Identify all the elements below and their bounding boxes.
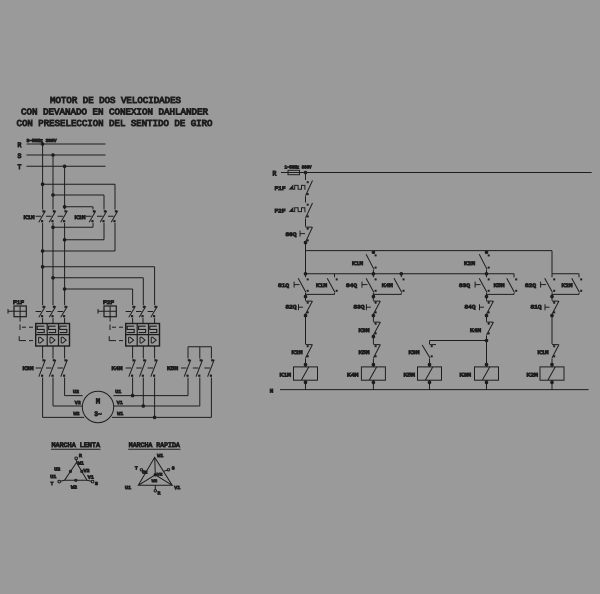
diagram MARCHA LENTA title — [51, 442, 101, 450]
node N neutral rail — [270, 388, 589, 395]
coil K2M — [527, 367, 565, 390]
svg-text:M: M — [96, 399, 100, 407]
coil K3M — [460, 367, 499, 390]
svg-text:S2Q: S2Q — [525, 282, 537, 289]
wire control phase rail top — [304, 171, 592, 174]
node S (phase bus S) — [18, 153, 106, 160]
svg-text:K5M: K5M — [359, 349, 370, 356]
svg-text:K5M: K5M — [404, 371, 416, 378]
auxiliary contact K2M NC on K1M branch — [292, 315, 313, 367]
svg-text:W1: W1 — [78, 462, 84, 467]
wire control bus 2 — [306, 273, 515, 278]
svg-text:K4M: K4M — [112, 365, 123, 372]
svg-text:K5M: K5M — [167, 365, 178, 372]
svg-text:V2: V2 — [75, 400, 81, 406]
auxiliary contact K2M NO feed — [464, 251, 490, 276]
overload F2F heater box — [126, 324, 160, 347]
svg-text:F2F: F2F — [103, 300, 114, 306]
svg-text:K3M: K3M — [23, 365, 34, 372]
svg-text:K1M: K1M — [352, 260, 363, 267]
overload F1F heater box — [36, 324, 70, 347]
svg-text:K5M: K5M — [494, 282, 505, 289]
svg-text:K1M: K1M — [280, 371, 292, 378]
contact S3Q NO — [459, 274, 490, 295]
wire rail to F1F — [305, 173, 307, 181]
svg-text:CON PRESELECCION DEL SENTIDO D: CON PRESELECCION DEL SENTIDO DE GIRO — [17, 118, 213, 129]
coil K5M — [404, 367, 442, 390]
wire phase U down to F1F — [42, 223, 44, 305]
svg-text:R: R — [18, 142, 22, 149]
wire branch U to F2F contact 3 — [41, 266, 154, 306]
diagram MARCHA RAPIDA title — [128, 442, 180, 450]
svg-text:U2: U2 — [142, 472, 148, 476]
svg-text:F2F: F2F — [275, 207, 286, 214]
wire pair rejoin — [485, 294, 514, 300]
contact S4Q NO — [346, 274, 377, 295]
svg-text:S1Q: S1Q — [531, 304, 543, 311]
overload relay F1F trip element — [8, 300, 26, 321]
svg-text:K2M: K2M — [562, 282, 573, 289]
wire motor U1 line — [113, 378, 188, 397]
contact S2Q NO — [525, 274, 555, 295]
svg-text:K1M: K1M — [538, 349, 549, 356]
svg-text:W2: W2 — [152, 480, 158, 484]
svg-text:K2M: K2M — [292, 349, 303, 356]
auxiliary contact K1M NC on K2M branch — [538, 315, 560, 367]
svg-text:K4M: K4M — [470, 327, 481, 334]
overload F2F linkage marks — [109, 325, 123, 341]
wire merge K1M-2/K2M-1 — [52, 223, 93, 229]
wire K3M to motor V2 — [53, 378, 82, 407]
motor terminal labels U1 V1 W1 — [115, 389, 123, 417]
wire bus2 branch5 segment — [552, 274, 579, 277]
diagram MARCHA LENTA labels — [50, 453, 98, 491]
overload contact F2F NC — [275, 203, 313, 218]
wire pair rejoin — [551, 294, 579, 300]
contact K4M NO — [382, 274, 405, 295]
contactor K5M contacts — [167, 359, 214, 377]
auxiliary contact K4M NC on K3M branch — [470, 322, 494, 342]
wire R drop to K1M contact 1 — [42, 144, 44, 210]
svg-text:K4M: K4M — [382, 282, 393, 289]
svg-text:W2: W2 — [71, 486, 77, 491]
svg-text:K2M: K2M — [464, 260, 475, 267]
svg-text:V2: V2 — [84, 469, 90, 474]
auxiliary contact K5M NC on K4M branch — [359, 345, 381, 367]
svg-text:W2: W2 — [74, 411, 80, 417]
svg-text:U1: U1 — [50, 475, 56, 480]
svg-text:R: R — [158, 491, 161, 497]
contact K5M NO — [494, 274, 518, 295]
title text — [17, 95, 213, 129]
button S2Q NC interlock — [286, 301, 313, 322]
svg-text:S3Q: S3Q — [354, 304, 366, 311]
wire branch5 from bus1 — [551, 251, 553, 274]
svg-text:W1: W1 — [157, 454, 163, 459]
wire phase W down to F1F — [64, 223, 66, 305]
svg-text:U1: U1 — [115, 389, 121, 395]
contact S1Q NO — [278, 274, 309, 295]
svg-text:V1: V1 — [88, 475, 94, 480]
svg-text:W1: W1 — [117, 411, 123, 417]
wire branch W to F2F contact 1 — [63, 288, 132, 305]
svg-text:S2Q: S2Q — [286, 304, 298, 311]
wire T drop to K1M contact 3 — [64, 166, 66, 209]
wire crossover T to K2M contact 1 — [63, 206, 93, 210]
overload F1F switch contacts — [36, 306, 68, 324]
contactor K3M contacts — [23, 346, 68, 377]
star bridge wire for K5M — [188, 347, 211, 359]
value label 1~50Hz 380V — [285, 167, 312, 171]
wire motor V1 line — [114, 378, 200, 408]
wire merge K1M-1/K2M-3 — [41, 223, 115, 252]
svg-text:CON DEVANADO EN CONEXION DAHLA: CON DEVANADO EN CONEXION DAHLANDER — [21, 107, 208, 118]
contact K1M NO — [316, 274, 338, 295]
wire K3M to motor W2 — [65, 378, 83, 396]
svg-text:F1F: F1F — [275, 185, 286, 192]
svg-text:F1F: F1F — [13, 300, 24, 306]
diagram MARCHA RAPIDA labels — [125, 454, 181, 497]
svg-text:K2M: K2M — [527, 371, 539, 378]
overload relay F2F trip element — [98, 300, 116, 321]
stop button S0Q NC — [286, 227, 313, 242]
wire crossover S to K2M contact 2 — [52, 194, 104, 210]
svg-text:3~: 3~ — [94, 411, 102, 418]
svg-text:K3M: K3M — [460, 371, 472, 378]
fuse F1F control — [288, 170, 306, 174]
contact K2M NO — [562, 274, 583, 295]
svg-text:U1: U1 — [125, 486, 131, 491]
node R control supply — [273, 170, 289, 177]
button S3Q NC interlock — [354, 301, 381, 322]
svg-text:S4Q: S4Q — [465, 304, 477, 311]
contactor K2M main contacts — [75, 210, 118, 222]
button S4Q NC interlock — [465, 301, 494, 322]
svg-text:V1: V1 — [174, 486, 180, 491]
contactor K4M contacts — [112, 346, 158, 377]
svg-text:S4Q: S4Q — [346, 282, 358, 289]
svg-text:V2: V2 — [157, 473, 163, 477]
svg-text:T: T — [51, 481, 54, 487]
svg-text:S: S — [18, 153, 22, 160]
wire K5M coil feed — [430, 341, 487, 345]
svg-text:K3M: K3M — [409, 349, 420, 356]
wire branch V to F2F contact 2 — [52, 277, 144, 306]
svg-text:U2: U2 — [73, 389, 79, 395]
diagram MARCHA LENTA delta winding — [58, 457, 94, 483]
svg-text:V1: V1 — [117, 400, 123, 406]
wire crossover R to K2M contact 3 — [41, 183, 115, 210]
wire F2F to S0Q — [305, 219, 307, 227]
svg-text:N: N — [270, 388, 274, 395]
wire K3M to motor U2 — [43, 378, 85, 418]
button S1Q NC interlock — [531, 301, 560, 322]
wire branch1 bus1-bus2 — [304, 251, 307, 276]
svg-text:S0Q: S0Q — [286, 231, 298, 238]
overload F2F switch contacts — [126, 306, 158, 324]
auxiliary contact K3M NC on K5M branch — [409, 345, 437, 367]
auxiliary contact K1M NO feed — [352, 251, 377, 276]
svg-text:K1M: K1M — [24, 214, 35, 221]
wire F1F to F2F — [305, 196, 307, 202]
svg-text:MOTOR DE DOS VELOCIDADES: MOTOR DE DOS VELOCIDADES — [50, 95, 181, 106]
node T (phase bus T) — [18, 164, 106, 171]
coil K1M — [280, 367, 318, 390]
wire S drop to K1M contact 2 — [52, 155, 54, 210]
diagram MARCHA RAPIDA winding — [138, 457, 172, 492]
svg-text:K4M: K4M — [347, 371, 359, 378]
wire phase V down to F1F — [52, 223, 54, 305]
wire motor W1 line — [112, 378, 211, 419]
svg-text:S: S — [172, 465, 175, 471]
node R (phase bus R) — [18, 142, 106, 149]
svg-text:1~50Hz 380V: 1~50Hz 380V — [285, 167, 312, 171]
wire merge K1M-3/K2M-2 — [63, 223, 104, 241]
svg-text:U2: U2 — [54, 467, 60, 472]
svg-text:K2M: K2M — [75, 214, 86, 221]
svg-text:K3M: K3M — [359, 327, 370, 334]
motor terminal labels U2 V2 W2 — [73, 389, 81, 417]
overload F1F linkage marks — [19, 325, 33, 341]
svg-text:S3Q: S3Q — [459, 282, 471, 289]
wire S0Q to bus — [304, 241, 307, 250]
svg-text:R: R — [273, 170, 277, 177]
svg-text:R: R — [79, 453, 82, 459]
coil K4M — [347, 367, 385, 390]
wire K3M coil feed — [485, 341, 488, 367]
svg-text:T: T — [18, 164, 22, 171]
contactor K1M main contacts — [24, 210, 68, 222]
wire pair rejoin — [372, 294, 401, 300]
svg-text:T: T — [135, 465, 138, 471]
svg-text:3~50Hz 380V: 3~50Hz 380V — [27, 140, 58, 144]
svg-text:K1M: K1M — [316, 282, 327, 289]
wire pair rejoin — [304, 294, 334, 300]
svg-text:S1Q: S1Q — [278, 282, 290, 289]
auxiliary contact K3M NC on K4M branch — [359, 322, 381, 344]
overload contact F1F NC — [275, 181, 313, 196]
motor M 3~ — [82, 391, 113, 422]
wire control bus 1 — [306, 250, 553, 252]
svg-text:S: S — [95, 481, 98, 487]
value label 3~50Hz 380V — [27, 140, 58, 144]
